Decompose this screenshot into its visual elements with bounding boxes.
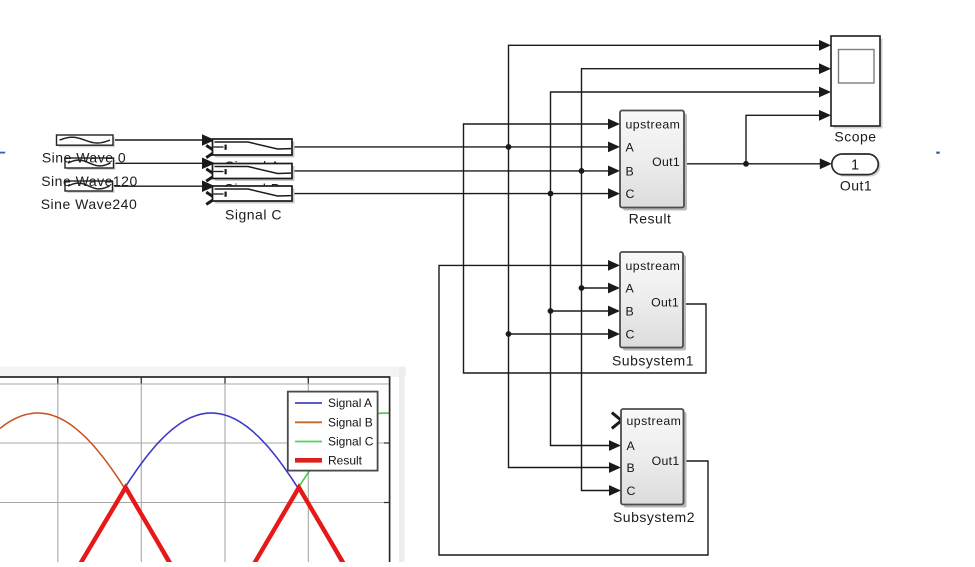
svg-text:A: A [627,439,636,453]
svg-text:Out1: Out1 [651,296,679,310]
svg-text:Sine Wave240: Sine Wave240 [41,196,138,212]
svg-text:A: A [626,140,635,154]
svg-text:C: C [627,484,636,498]
svg-text:1: 1 [851,158,859,174]
svg-text:Out1: Out1 [840,178,872,194]
svg-text:Result: Result [328,454,363,468]
svg-text:C: C [626,327,635,341]
svg-text:upstream: upstream [626,117,681,131]
svg-text:Signal C: Signal C [328,435,374,449]
svg-text:Result: Result [629,210,672,226]
svg-text:Out1: Out1 [652,155,680,169]
svg-text:B: B [626,164,634,178]
svg-text:Sine Wave 0: Sine Wave 0 [42,149,126,165]
svg-text:C: C [626,187,635,201]
svg-text:A: A [626,281,635,295]
svg-text:Signal C: Signal C [225,206,282,222]
svg-text:upstream: upstream [626,259,681,273]
svg-text:Signal A: Signal A [328,396,372,410]
svg-text:Signal B: Signal B [328,416,373,430]
svg-text:Out1: Out1 [652,454,680,468]
svg-text:Subsystem2: Subsystem2 [613,509,695,525]
svg-text:Subsystem1: Subsystem1 [612,352,694,368]
svg-text:Sine Wave120: Sine Wave120 [41,173,138,189]
svg-text:upstream: upstream [627,414,682,428]
svg-text:B: B [627,461,635,475]
svg-text:Scope: Scope [834,129,876,145]
svg-text:B: B [626,304,634,318]
